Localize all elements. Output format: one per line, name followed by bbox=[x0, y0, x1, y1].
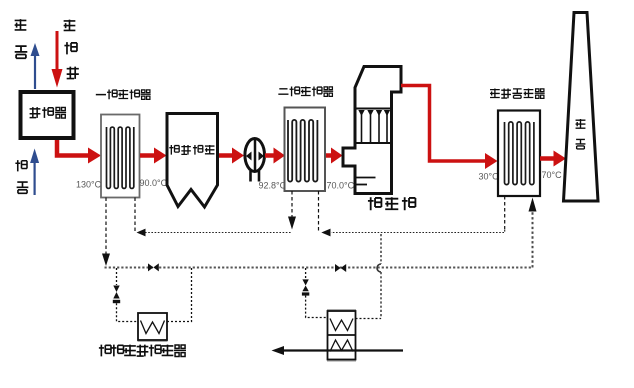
label 辅助蒸汽加热器 bbox=[99, 345, 186, 357]
wire red flue: cooler2 to tower bbox=[326, 148, 343, 164]
svg-text:90.0°C: 90.0°C bbox=[140, 178, 168, 188]
spray nozzle 4 bbox=[384, 110, 390, 143]
label 二级烟冷器 bbox=[278, 87, 333, 97]
wire dashed: cooler2 left pipe down bbox=[288, 191, 296, 230]
tower liquid level lines bbox=[356, 177, 376, 179]
wire red flue: tower outlet to reheater bbox=[401, 86, 498, 170]
valve V1 on main line bbox=[148, 263, 159, 271]
label 烟囱 bbox=[576, 119, 586, 149]
heat exchanger cooler1 一级烟冷器 box bbox=[101, 115, 140, 198]
wire dotted: aux heater1 left branch with valve bbox=[113, 268, 138, 322]
air preheater box 空预器 bbox=[21, 92, 74, 138]
reheater coil bbox=[505, 122, 534, 185]
wire red flue: cooler1 to ESP bbox=[140, 148, 167, 164]
tower lower bar bbox=[355, 142, 392, 144]
svg-text:30°C: 30°C bbox=[479, 172, 500, 182]
wire gray riser x381 with hop over main line bbox=[377, 234, 381, 319]
svg-text:92.8°C: 92.8°C bbox=[259, 181, 287, 191]
wire red flue: ESP to fan bbox=[219, 148, 244, 164]
label 热风 (hot air) bbox=[15, 19, 28, 58]
wire dotted y233 left segment (cooler2 to cooler1) bbox=[137, 229, 293, 237]
wire dotted: HX2 right branch to riser x381 bbox=[356, 318, 382, 320]
label 静电除尘 bbox=[169, 145, 214, 155]
cooler1 coil bbox=[107, 127, 134, 188]
label 烟气再热器 bbox=[490, 89, 545, 99]
wire dashed: cooler1 right pipe down bbox=[134, 198, 136, 233]
wire red flue: fan to cooler2 bbox=[265, 148, 285, 164]
wire dotted: aux heater1 right branch up bbox=[167, 268, 192, 322]
heat exchanger reheater 烟气再热器 box bbox=[498, 111, 540, 197]
wire dashed: cooler1 left pipe down bbox=[102, 198, 110, 267]
spray nozzle 1 bbox=[358, 110, 364, 143]
arrow hot-air blue up bbox=[31, 43, 40, 89]
svg-text:70°C: 70°C bbox=[542, 170, 563, 180]
aux steam heater1 box with W bbox=[138, 313, 168, 341]
wire dashed: cooler2 right pipe down bbox=[318, 191, 320, 233]
wire gray riser to reheater bbox=[529, 198, 537, 268]
arrow cold-air blue up bbox=[30, 149, 39, 196]
heat exchanger cooler2 二级烟冷器 box bbox=[285, 108, 326, 192]
chimney 烟囱 bbox=[564, 13, 599, 202]
spray nozzle 3 bbox=[376, 110, 382, 143]
wire red flue: preheater to cooler1 bbox=[57, 140, 101, 164]
label 空预器 bbox=[30, 107, 67, 118]
wire dashed: reheater left pipe down bbox=[504, 196, 506, 230]
FGD tower 脱硫塔 outline bbox=[343, 67, 401, 194]
ESP 静电除尘 body bbox=[167, 114, 218, 208]
svg-text:70.0°C: 70.0°C bbox=[327, 181, 355, 191]
label 热烟气 (hot flue gas) bbox=[64, 20, 79, 79]
wire dotted: HX2 left branch with valve bbox=[302, 268, 328, 318]
spray nozzle 2 bbox=[367, 110, 373, 143]
cooler2 coil bbox=[288, 120, 317, 182]
wire dotted y233 right segment (reheater to cooler2) bbox=[321, 229, 504, 237]
heat exchanger HX2 box (W over M) bbox=[327, 310, 356, 361]
fan (booster) bbox=[245, 138, 265, 182]
arrow hot-flue red down bbox=[52, 31, 63, 88]
label 冷风 (cold air) bbox=[15, 160, 28, 193]
tower spray header bar bbox=[355, 108, 392, 110]
label 脱硫塔 bbox=[368, 197, 415, 210]
wire main water line y267.5 bbox=[105, 267, 533, 269]
label 一级烟冷器 bbox=[96, 90, 151, 100]
wire red flue: reheater to chimney bbox=[540, 151, 566, 167]
svg-text:130°C: 130°C bbox=[76, 180, 102, 190]
wire solid hot water line with left arrow bbox=[272, 346, 404, 355]
valve V2 on main line bbox=[335, 264, 346, 272]
